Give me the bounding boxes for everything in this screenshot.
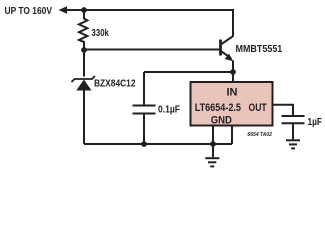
svg-text:GND: GND — [211, 115, 232, 127]
svg-text:0.1µF: 0.1µF — [158, 105, 180, 116]
svg-text:IN: IN — [227, 87, 238, 99]
svg-text:BZX84C12: BZX84C12 — [94, 79, 136, 90]
svg-text:6654 TA02: 6654 TA02 — [247, 132, 272, 138]
svg-text:UP TO 160V: UP TO 160V — [5, 6, 53, 17]
svg-text:MMBT5551: MMBT5551 — [236, 44, 283, 55]
svg-text:OUT: OUT — [249, 102, 267, 114]
svg-text:LT6654-2.5: LT6654-2.5 — [195, 102, 241, 114]
svg-text:330k: 330k — [92, 28, 110, 39]
svg-text:1µF: 1µF — [308, 117, 323, 128]
